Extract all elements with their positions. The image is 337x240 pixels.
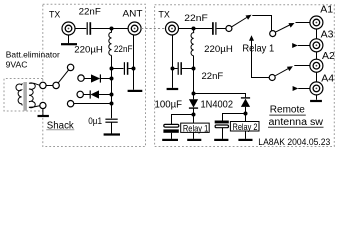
svg-text:TX: TX — [49, 10, 61, 21]
svg-text:TX: TX — [158, 10, 170, 21]
wire relay1 to ground — [193, 132, 195, 139]
node bus bottom — [110, 102, 114, 106]
capacitor C5 22nF — [178, 62, 181, 75]
svg-text:22nF: 22nF — [184, 13, 208, 24]
remote enclosure dashed box — [155, 5, 335, 147]
wire TX remote to C4 — [179, 28, 213, 30]
svg-text:A4: A4 — [321, 73, 334, 85]
relay coil box Relay 2 — [230, 122, 259, 133]
wire throw2 to D1 — [84, 78, 91, 80]
relay contact lever 1 — [232, 17, 248, 27]
wire throw to pole 2 — [252, 16, 271, 31]
svg-text:100µF: 100µF — [155, 99, 183, 110]
switch S1 lever — [58, 70, 69, 83]
wire cap2 to node — [223, 114, 246, 121]
capacitor 100uF plate bottom — [163, 129, 178, 132]
capacitor C1 22nF — [87, 22, 90, 35]
svg-text:9VAC: 9VAC — [6, 59, 28, 69]
ground TX shack — [61, 35, 77, 44]
svg-text:Relay 2: Relay 2 — [233, 122, 258, 132]
svg-text:220µH: 220µH — [74, 45, 103, 56]
svg-text:A2: A2 — [322, 50, 335, 62]
svg-text:1N4002: 1N4002 — [201, 99, 234, 110]
connector TX remote — [166, 22, 179, 35]
wire C1 to ANT — [91, 28, 128, 30]
wire throw3 to D2 — [83, 94, 90, 96]
wire arrow2 to A1 — [296, 22, 310, 24]
svg-text:Remote: Remote — [270, 105, 305, 116]
wire bus L1 down — [111, 55, 113, 103]
svg-text:22nF: 22nF — [114, 44, 133, 55]
node L2 tap — [192, 27, 196, 31]
switch S1 throw 3 circle — [77, 91, 83, 97]
wire relay2 to ground — [245, 131, 247, 139]
svg-text:Relay 1: Relay 1 — [242, 43, 274, 54]
svg-text:Batt.eliminator: Batt.eliminator — [6, 49, 60, 59]
svg-text:antenna sw: antenna sw — [269, 117, 324, 128]
wire secondary top to pin — [34, 83, 40, 85]
wire D4 to relay2 — [245, 107, 247, 122]
diode D2 — [90, 90, 99, 98]
node junction L1 tap — [110, 27, 114, 31]
fixed contact arrow A4 — [293, 86, 299, 91]
transformer T1 primary — [16, 83, 22, 105]
switch S1 throw 1 circle — [67, 64, 73, 70]
ground transformer secondary — [38, 109, 49, 116]
wire ANT connector down — [133, 35, 135, 90]
connector A4 — [310, 82, 323, 95]
wire shells A1-A3 — [316, 29, 318, 39]
svg-text:A3: A3 — [321, 29, 334, 41]
ground 100uF — [162, 139, 178, 141]
svg-text:220µH: 220µH — [204, 44, 233, 55]
wire branch down to pole 3 — [252, 40, 270, 77]
diode D3 1N4002 — [189, 99, 198, 108]
ground cap2 — [214, 139, 228, 141]
arrow lever 3 — [287, 64, 294, 71]
node D2 bus — [110, 93, 114, 97]
switch S1 throw 2 circle — [78, 75, 84, 81]
relay coil box Relay 1 — [181, 123, 210, 133]
wire C4 to relay switch 1 — [217, 28, 226, 30]
node cap1 tap — [192, 113, 196, 117]
relay contact pole 3 — [269, 75, 275, 81]
ground A4 — [310, 95, 322, 101]
node C2 tap — [110, 67, 114, 71]
capacitor relay2 plate top — [215, 121, 229, 124]
connector A2 — [310, 59, 323, 72]
wire C3 to ground — [111, 122, 113, 133]
inductor L2 220uH — [191, 30, 194, 55]
wire secondary bottom to pin — [34, 106, 41, 107]
connector ANT shack — [128, 22, 141, 35]
node C5 right — [192, 67, 196, 71]
node cap2 tap — [244, 112, 248, 116]
ground ANT line — [128, 90, 143, 92]
wire A3 contact — [298, 45, 310, 47]
battery eliminator extension dashed box — [4, 79, 43, 112]
transformer T1 secondary — [29, 83, 35, 108]
svg-text:ANT: ANT — [123, 8, 143, 19]
wire D1 to bus — [100, 78, 111, 80]
node D1 bus — [110, 77, 114, 81]
wire L2 down — [193, 56, 195, 100]
wire pin to switch pole — [46, 85, 53, 87]
wire shells A2-A4 — [316, 72, 318, 82]
capacitor relay2 plate bottom — [215, 125, 228, 128]
pin circle bottom on shack edge — [40, 102, 46, 108]
capacitor C3 0u1 — [105, 119, 117, 122]
inductor L1 220uH — [109, 30, 112, 55]
relay contact pole 1 — [226, 26, 232, 32]
capacitor C4 22nF — [213, 22, 216, 35]
svg-text:22nF: 22nF — [79, 7, 101, 18]
fixed contact arrow A3 — [292, 43, 298, 48]
wire 100uF to ground — [171, 133, 173, 139]
ground relay2 — [238, 139, 252, 141]
wire D2 to bus — [99, 94, 112, 96]
wire to C5 — [172, 68, 178, 70]
ground C3 — [104, 133, 120, 135]
relay contact lever 2 — [275, 25, 290, 33]
svg-text:A1: A1 — [320, 4, 333, 16]
fixed contact arrow down branch — [249, 35, 254, 41]
wire C2 to ANT line — [128, 68, 133, 70]
node branch right — [192, 92, 196, 96]
ground TX remote line — [167, 88, 179, 90]
diode D1 — [91, 74, 100, 82]
wire branch to D4 — [194, 94, 246, 98]
connector A3 — [310, 39, 323, 52]
wire bus to C3 — [111, 104, 113, 119]
arrow lever 2 — [288, 21, 295, 28]
wire bus to C2 — [112, 68, 124, 70]
transformer T1 core — [23, 82, 27, 111]
svg-text:22nF: 22nF — [202, 71, 224, 82]
wire TX line down — [172, 35, 174, 88]
switch S1 pole circle — [53, 82, 59, 88]
arrow lever 1 — [245, 13, 252, 20]
node C5 left — [171, 67, 175, 71]
wire cap1 to node — [172, 115, 194, 125]
node ANT line C2 — [132, 67, 136, 71]
wire throw4 to bus — [74, 103, 112, 105]
wire A4 contact — [298, 88, 309, 90]
dashed coax wire ANT to remote TX — [141, 28, 165, 30]
relay contact lever 3 — [275, 68, 289, 76]
capacitor 100uF plate top — [164, 124, 179, 127]
wire arrow3 to A2 — [294, 65, 309, 67]
svg-text:LA8AK 2004.05.23: LA8AK 2004.05.23 — [258, 137, 330, 147]
connector TX shack — [62, 22, 75, 35]
shack enclosure dashed box — [43, 4, 146, 146]
pin circle top on shack edge — [40, 82, 46, 88]
wire TX to C1 — [75, 28, 86, 30]
relay contact pole 2 — [270, 31, 276, 37]
ground relay1 — [187, 139, 201, 141]
wire cap2 to ground — [222, 128, 224, 139]
switch S1 throw 4 circle — [67, 101, 73, 107]
diode D4 1N4002 — [241, 98, 250, 107]
connector A1 — [310, 16, 323, 29]
svg-text:Relay 1: Relay 1 — [183, 123, 208, 133]
capacitor C2 22nF — [124, 62, 127, 75]
wire shells A3-A2 — [316, 52, 318, 60]
wire C5 to bus — [182, 68, 194, 70]
svg-text:0µ1: 0µ1 — [88, 116, 102, 126]
wire D3 to relay1 — [193, 108, 195, 123]
